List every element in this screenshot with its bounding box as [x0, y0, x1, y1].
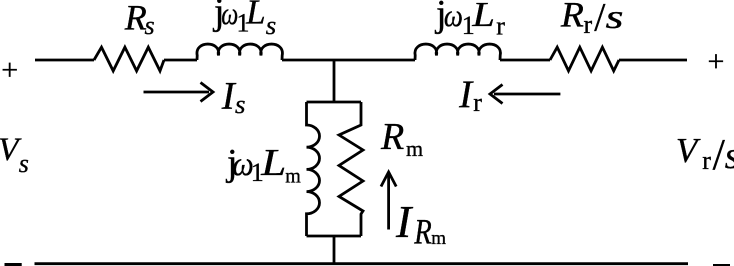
label Vr/s: [676, 130, 734, 179]
svg-text:R: R: [560, 0, 584, 35]
label Is: [221, 75, 246, 120]
svg-text:r: r: [702, 146, 711, 175]
svg-text:m: m: [431, 228, 446, 249]
label IRm: [395, 196, 446, 251]
svg-text:s: s: [19, 149, 29, 178]
label jw1Ls: [212, 0, 276, 40]
svg-text:r: r: [496, 11, 505, 40]
label Vs: [0, 132, 29, 178]
svg-text:+: +: [708, 45, 725, 78]
inductor L2 (rotor leakage inductance Lr): [415, 44, 500, 60]
svg-text:V: V: [676, 131, 701, 170]
node: top junction / wire stub to shunt branch: [333, 60, 336, 102]
svg-text:s: s: [145, 11, 155, 40]
svg-text:L: L: [471, 0, 495, 34]
svg-text:R: R: [124, 0, 147, 37]
svg-text:L: L: [260, 142, 286, 184]
svg-text:r: r: [473, 88, 482, 117]
svg-text:L: L: [245, 0, 266, 32]
svg-text:/: /: [713, 130, 726, 179]
wire: bottom rail: [35, 262, 689, 265]
svg-text:R: R: [414, 211, 432, 251]
wire: top-left horizontal segment: [35, 59, 94, 62]
wire: top-center segment through junction: [282, 59, 415, 62]
svg-text:R: R: [380, 116, 404, 158]
svg-text:s: s: [235, 90, 246, 119]
wire: stub from shunt branch to bottom rail: [333, 236, 336, 263]
svg-text:s: s: [725, 135, 734, 177]
wire: between Lr and Rr/s: [500, 59, 550, 62]
arrow: core-loss current IRm (pointing up): [381, 172, 396, 230]
svg-text:m: m: [285, 165, 301, 187]
arrow: stator current Is (pointing right): [144, 83, 214, 102]
svg-text:r: r: [584, 10, 593, 39]
label jw1Lm: [225, 142, 301, 188]
inductor L3 (magnetizing inductance Lm, vertical): [307, 102, 320, 236]
svg-text:s: s: [266, 11, 277, 40]
wire: top-right horizontal segment: [619, 59, 687, 62]
inductor L1 (stator leakage inductance Ls): [197, 44, 282, 60]
svg-text:m: m: [406, 136, 423, 161]
resistor R2 (rotor resistance Rr/s): [550, 47, 619, 71]
label Rr/s: [560, 0, 624, 40]
svg-text:+: +: [1, 54, 18, 87]
arrow: rotor current Ir (pointing left): [490, 85, 560, 104]
wire: shunt branch top bar: [307, 101, 362, 104]
label Ir: [458, 73, 482, 117]
svg-text:/: /: [594, 0, 606, 40]
svg-text:I: I: [395, 196, 414, 247]
svg-text:ω: ω: [444, 0, 463, 33]
polarity - (rotor terminal): [713, 264, 730, 266]
polarity - (stator terminal): [5, 263, 22, 266]
label Rm: [380, 116, 423, 161]
wire: between Rs and Ls: [164, 59, 197, 62]
resistor R3 (core-loss resistance Rm, vertical): [339, 102, 363, 236]
label Rs: [124, 0, 155, 40]
resistor R1 (stator resistance Rs): [94, 47, 164, 71]
svg-text:I: I: [458, 73, 474, 116]
label jw1Lr: [434, 0, 505, 40]
wire: shunt branch bottom bar: [307, 235, 362, 238]
svg-text:s: s: [606, 0, 624, 36]
